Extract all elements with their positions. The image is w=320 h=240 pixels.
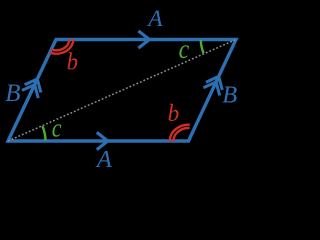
double arrow on left side B	[25, 79, 41, 93]
svg-text:c: c	[179, 34, 190, 64]
svg-text:b: b	[67, 49, 78, 75]
double arrow on right side B	[206, 76, 222, 90]
diagonal (dotted) from bottom-left to top-right	[8, 40, 236, 142]
angle c arc at bottom-left vertex	[42, 126, 45, 140]
svg-text:A: A	[146, 6, 163, 32]
angle b double arc at bottom-right vertex	[174, 128, 190, 141]
svg-text:A: A	[95, 146, 113, 173]
angle b double arc at top-left vertex	[51, 39, 69, 50]
parallelogram outline (sides A top/bottom, B left/right)	[8, 40, 236, 142]
arrow on top side A	[138, 31, 149, 48]
svg-text:B: B	[222, 82, 237, 109]
angle c arc at top-right vertex	[201, 40, 204, 53]
arrow on bottom side A	[97, 132, 108, 149]
svg-text:c: c	[52, 113, 62, 142]
svg-text:b: b	[168, 101, 180, 127]
svg-text:B: B	[5, 80, 20, 107]
